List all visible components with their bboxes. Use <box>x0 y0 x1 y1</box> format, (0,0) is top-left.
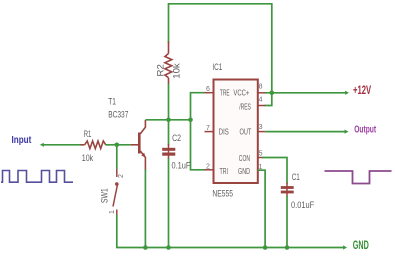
svg-text:6: 6 <box>206 86 210 93</box>
capacitor C1 <box>281 186 294 193</box>
svg-text:DIS: DIS <box>219 126 229 136</box>
svg-text:GND: GND <box>238 166 250 176</box>
svg-text:2: 2 <box>118 174 125 178</box>
svg-text:0.01uF: 0.01uF <box>291 200 314 211</box>
resistor R2 <box>165 42 172 85</box>
svg-text:SW1: SW1 <box>100 188 111 203</box>
wire collector node horizontal <box>145 119 190 121</box>
wire to TRE and TRI <box>191 93 205 170</box>
node junction C1/rail <box>285 245 290 250</box>
wire pin4 /RES connect <box>265 93 272 106</box>
resistor R1 <box>81 141 110 149</box>
svg-text:NE555: NE555 <box>212 188 233 199</box>
node Input arrow <box>40 143 44 147</box>
node junction emitter/rail <box>143 245 148 250</box>
wire SW1 top <box>116 145 118 169</box>
svg-text:R2: R2 <box>156 64 167 76</box>
svg-text:CON: CON <box>239 153 250 163</box>
svg-text:/RES: /RES <box>239 101 251 111</box>
svg-text:2: 2 <box>206 163 210 170</box>
node junction C2/rail <box>166 245 171 250</box>
svg-text:BC337: BC337 <box>108 109 128 120</box>
capacitor C2 <box>162 148 175 156</box>
svg-text:C2: C2 <box>172 133 181 144</box>
svg-text:VCC+: VCC+ <box>233 88 249 98</box>
svg-text:IC1: IC1 <box>212 62 222 73</box>
svg-text:GND: GND <box>353 240 369 252</box>
op-amp U1 IC box <box>214 80 258 184</box>
svg-text:10k: 10k <box>172 63 183 79</box>
wire OUT to Output <box>265 131 345 133</box>
node junction R2/C2 <box>166 118 171 123</box>
svg-text:+12V: +12V <box>353 83 371 97</box>
wire emitter to rail <box>144 170 146 248</box>
wire +12V rail <box>265 92 346 94</box>
node junction pin8/+12V <box>270 91 275 96</box>
pin stubs left <box>205 93 214 170</box>
node GND arrow <box>343 245 347 249</box>
svg-text:Input: Input <box>12 134 32 146</box>
transistor T1 <box>131 120 146 171</box>
svg-text:3: 3 <box>259 124 263 131</box>
wire input to R1 <box>44 144 83 146</box>
node +12V arrow <box>345 91 349 95</box>
svg-text:0.1uF: 0.1uF <box>172 161 191 172</box>
pin stubs right <box>258 93 265 170</box>
svg-text:10k: 10k <box>82 153 94 164</box>
svg-text:8: 8 <box>259 84 263 91</box>
wire R2 bottom to C2 <box>168 84 170 146</box>
node junction pin1/rail <box>263 245 268 250</box>
svg-text:1: 1 <box>109 210 116 214</box>
switch SW1 <box>113 169 118 215</box>
svg-text:C1: C1 <box>292 172 300 183</box>
node Output arrow <box>345 130 349 134</box>
node junction to pins 6/2 <box>188 118 193 123</box>
svg-text:Output: Output <box>354 123 376 135</box>
node input waveform <box>1 171 73 183</box>
wire top rail <box>169 4 272 93</box>
wire ground rail <box>116 247 344 249</box>
svg-text:TRE: TRE <box>220 88 230 98</box>
svg-text:5: 5 <box>259 151 263 158</box>
wire pin1 GND to rail <box>258 170 265 247</box>
wire CON to C1 <box>262 158 287 184</box>
svg-text:7: 7 <box>206 125 210 132</box>
wire R1 to base <box>106 144 131 146</box>
svg-text:OUT: OUT <box>240 126 252 136</box>
node junction R1/SW1 <box>115 143 120 148</box>
node output waveform <box>325 171 392 184</box>
svg-text:T1: T1 <box>108 97 116 108</box>
wire R2 top <box>168 3 170 43</box>
wire C2 bottom to rail <box>168 158 170 248</box>
wire SW1 bottom to rail <box>116 215 118 248</box>
svg-text:TRI: TRI <box>220 166 229 176</box>
svg-text:4: 4 <box>259 97 263 104</box>
wire C1 bottom to rail <box>286 196 288 248</box>
svg-text:R1: R1 <box>84 129 92 140</box>
